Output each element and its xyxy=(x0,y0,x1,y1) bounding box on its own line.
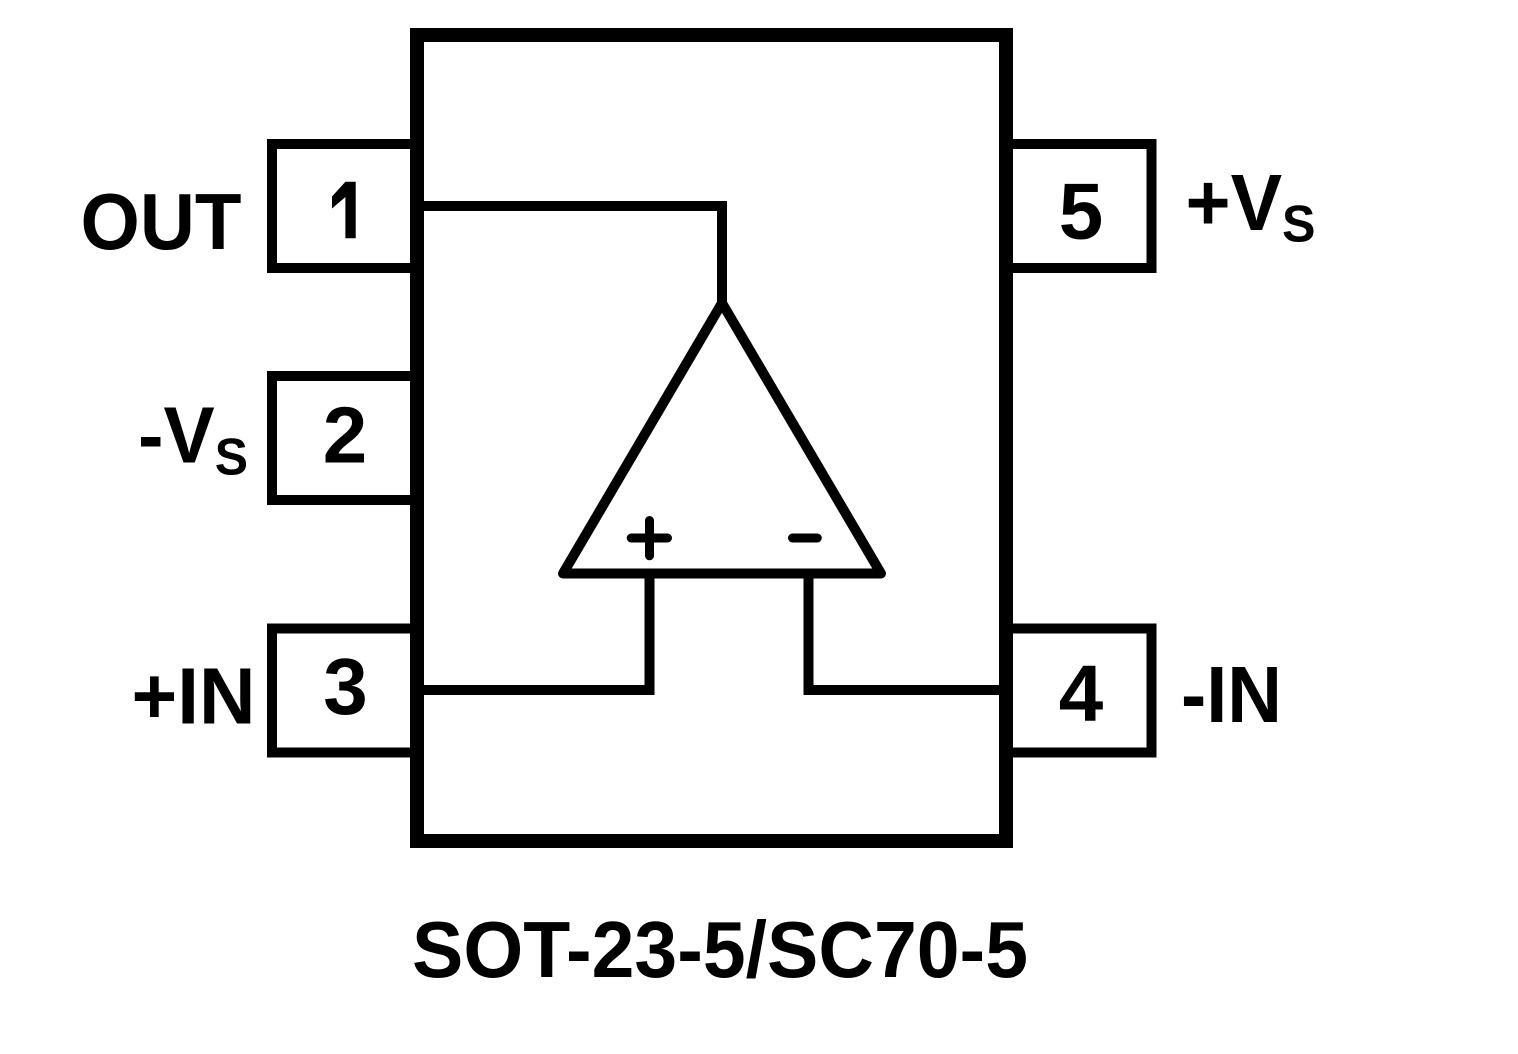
pin 4 box xyxy=(1006,629,1152,753)
pin 5 box xyxy=(1006,144,1152,268)
svg-text:OUT: OUT xyxy=(81,177,242,266)
op-amp - input marker xyxy=(793,534,818,543)
pin 3 box xyxy=(272,629,417,753)
op-amp U1 triangle xyxy=(563,303,881,574)
pin 1 box xyxy=(272,144,417,268)
svg-text:5: 5 xyxy=(1059,167,1104,256)
svg-text:3: 3 xyxy=(323,642,368,731)
wire: pin 4 (-IN) to op-amp inverting input xyxy=(809,573,1007,690)
wire: pin 1 output to op-amp apex xyxy=(417,206,722,303)
svg-text:SOT-23-5/SC70-5: SOT-23-5/SC70-5 xyxy=(412,905,1028,994)
svg-text:+IN: +IN xyxy=(132,652,256,741)
IC body U1 (SOT-23-5/SC70-5 package outline) xyxy=(417,35,1006,841)
svg-text:+VS: +VS xyxy=(1186,158,1316,254)
pin 2 box xyxy=(272,376,417,500)
svg-text:2: 2 xyxy=(323,391,368,480)
svg-text:-VS: -VS xyxy=(138,391,248,487)
svg-text:-IN: -IN xyxy=(1181,650,1282,739)
op-amp + input marker xyxy=(631,521,667,556)
pin 1 number xyxy=(332,182,356,239)
svg-text:4: 4 xyxy=(1059,649,1104,738)
wire: pin 3 (+IN) to op-amp non-inverting input xyxy=(417,573,650,690)
